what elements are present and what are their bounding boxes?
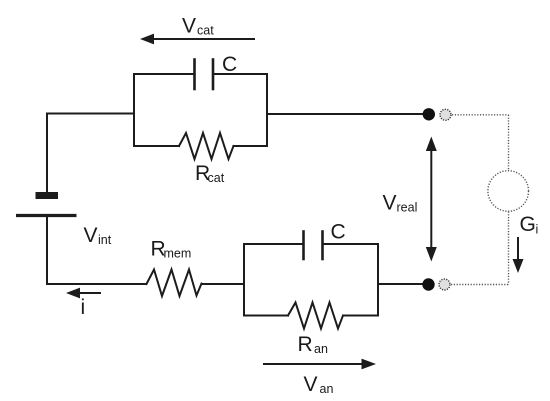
svg-text:cat: cat [197, 24, 214, 38]
svg-text:V: V [304, 373, 318, 396]
svg-text:C: C [222, 53, 237, 76]
svg-text:mem: mem [164, 247, 192, 261]
svg-text:V: V [383, 192, 397, 215]
svg-text:an: an [320, 382, 334, 396]
svg-text:real: real [397, 201, 418, 215]
svg-text:i: i [81, 296, 86, 319]
svg-text:C: C [331, 221, 346, 244]
svg-text:i: i [536, 223, 539, 237]
svg-text:V: V [182, 15, 196, 38]
svg-text:V: V [84, 224, 98, 247]
svg-text:R: R [298, 333, 313, 356]
svg-text:an: an [314, 342, 328, 356]
svg-text:G: G [520, 213, 536, 236]
svg-text:cat: cat [208, 171, 225, 185]
svg-text:int: int [98, 233, 112, 247]
